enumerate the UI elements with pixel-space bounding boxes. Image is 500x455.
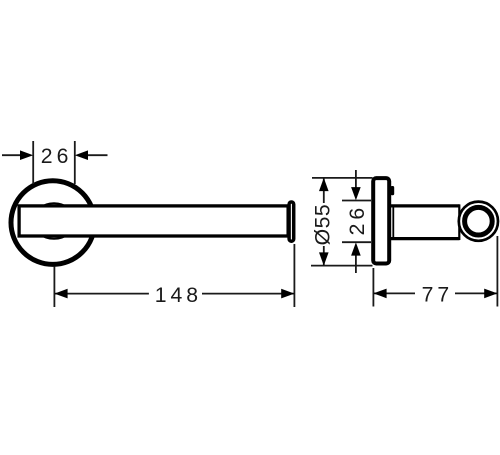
svg-text:26: 26 [41,145,73,168]
svg-text:148: 148 [155,284,202,307]
svg-text:Ø55: Ø55 [312,204,335,246]
svg-text:26: 26 [346,204,369,236]
svg-text:77: 77 [422,284,454,307]
